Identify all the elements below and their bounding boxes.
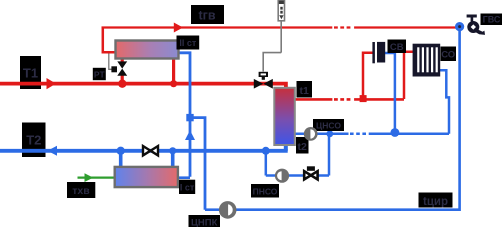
svg-text:ЦНПК: ЦНПК <box>191 218 218 227</box>
arrow on T1 line <box>47 78 57 89</box>
wire: stub T2 to HX1 left <box>119 151 123 167</box>
wire: SV towel warmer return (blue) <box>385 53 395 131</box>
label box T2 <box>22 123 46 158</box>
svg-text:tгв: tгв <box>198 9 215 23</box>
node: junction square on DHW riser <box>186 114 193 121</box>
node: junction square on radiator supply <box>360 95 367 102</box>
wire: heating return solid 2 (blue) <box>369 133 449 136</box>
svg-text:tцир: tцир <box>423 196 448 208</box>
impulse line from outdoor sensor to heating valve (gray) <box>263 21 281 72</box>
wire: HX1 secondary outlet corner (blue) <box>178 176 191 179</box>
label box t2 <box>296 137 309 154</box>
svg-text:t2: t2 <box>298 141 307 153</box>
node: junction dot at DHW tap <box>455 22 464 31</box>
label box PNSO <box>251 184 279 198</box>
wire: circulation bottom line right of pump (blue) <box>236 29 460 210</box>
valve makeup (solenoid) <box>304 166 317 179</box>
DHW faucet icon <box>467 15 485 35</box>
svg-text:Т1: Т1 <box>23 66 38 81</box>
wire: riser from HX2 left to top DHW line (red) <box>103 28 117 53</box>
valve on T2 line (gate, outline) <box>143 146 158 155</box>
arrow on top DHW line <box>174 23 183 33</box>
pump PNSO (makeup pump) <box>275 169 289 183</box>
svg-text:ПНСО: ПНСО <box>253 187 278 197</box>
node: junction T1/PT-valve <box>118 80 126 88</box>
svg-text:II ст: II ст <box>179 38 197 48</box>
node: junction T2/makeup tap <box>262 147 270 155</box>
valve heating control (with actuator) <box>254 72 273 89</box>
impulse line to PT regulator (gray) <box>109 54 113 70</box>
arrow on cold water inlet <box>85 173 94 182</box>
node: junction T1/HX2 right leg <box>170 80 177 87</box>
node: junction SV return/heating return <box>391 128 400 137</box>
wire: t1 supply dashed part (red) <box>334 98 350 101</box>
svg-text:t1: t1 <box>300 85 309 97</box>
svg-text:РТ: РТ <box>94 70 106 80</box>
wire: red stem above PT valve <box>121 58 124 64</box>
label box I st <box>179 180 195 194</box>
wire: top DHW line solid part 2 (red) <box>354 26 458 28</box>
wire: red stem below PT valve <box>121 74 124 84</box>
wire: makeup line through pump PNSO (blue) <box>266 174 329 177</box>
node: junction T2/HX1 right stub <box>169 147 176 154</box>
arrow up on DHW riser <box>185 130 195 140</box>
wire: stub T2 to HX1 right <box>171 151 175 167</box>
label box thv <box>67 182 95 198</box>
wire: riser to radiator SO (red) <box>404 52 413 99</box>
radiator SO icon <box>413 44 441 77</box>
svg-text:I ст: I ст <box>180 183 195 193</box>
wire: tee to circulation drop (blue) <box>190 118 205 210</box>
label box ttsir <box>419 193 453 208</box>
wire: HX3 bottom outlet into T2 <box>284 145 288 151</box>
wire: top DHW line dashed part (red) <box>334 26 350 28</box>
wire: HX2 secondary outlet to riser (blue) <box>179 53 191 177</box>
wire: t1 dashed supply to radiators, solid part 1 (red) <box>295 98 332 101</box>
svg-text:тхв: тхв <box>72 185 90 197</box>
wire: main supply line T1 (red) <box>0 84 286 89</box>
towel warmer SV icon <box>372 42 385 63</box>
pump TsNSO (heating circulation) <box>304 127 318 141</box>
wire: heating-circuit return line from HX3, solid 1 (blue) <box>295 133 349 136</box>
heat exchanger HX2 (II stage) <box>116 41 179 59</box>
label box T1 <box>20 56 41 89</box>
pump TsNPK (DHW circulation) <box>219 201 237 219</box>
node: junction T2/HX1 left stub <box>117 147 125 155</box>
node: junction makeup/heating return <box>326 130 333 137</box>
svg-text:ГВС: ГВС <box>483 15 501 25</box>
label box t1 <box>297 81 313 98</box>
sensor capsule on top line <box>278 0 284 21</box>
wire: t1 supply solid part 2 (red) <box>354 98 404 101</box>
label box SO <box>441 47 457 62</box>
wire: heating return dashed part (blue) <box>350 133 366 136</box>
label box PT <box>93 68 106 80</box>
wire: top DHW line solid part 1 (red) <box>102 26 333 28</box>
label box GVS <box>481 14 502 26</box>
label box SV <box>388 40 407 54</box>
wire: makeup line riser to heating return (blue) <box>328 134 331 176</box>
label box II st <box>177 36 200 50</box>
label box TsNPK <box>189 215 221 229</box>
arrow on T2 line <box>48 146 58 156</box>
wire: makeup tap down from T2 (blue) <box>265 151 268 176</box>
wire: main return line T2 (blue) <box>0 149 288 153</box>
label box tgv <box>191 5 224 24</box>
svg-text:ЦНСО: ЦНСО <box>316 121 341 131</box>
svg-text:СО: СО <box>441 50 455 61</box>
wire: HX2 right leg down to T1 (red) <box>172 58 175 84</box>
wire: SO radiator return with jog (blue) <box>440 70 449 134</box>
wire: riser to towel warmer SV (red) <box>363 53 373 96</box>
svg-text:Т2: Т2 <box>26 133 41 148</box>
wire: cold water inlet (green) <box>78 176 115 178</box>
label box TsNSO <box>313 119 344 131</box>
wire: circulation bottom line left of pump (blue) <box>205 208 220 211</box>
heat exchanger HX3 (heating circuit, vertical) <box>274 88 295 145</box>
heat exchanger HX1 (I stage) <box>115 167 178 187</box>
valve PT (vertical control valve) <box>111 61 127 75</box>
svg-text:СВ: СВ <box>390 42 404 53</box>
